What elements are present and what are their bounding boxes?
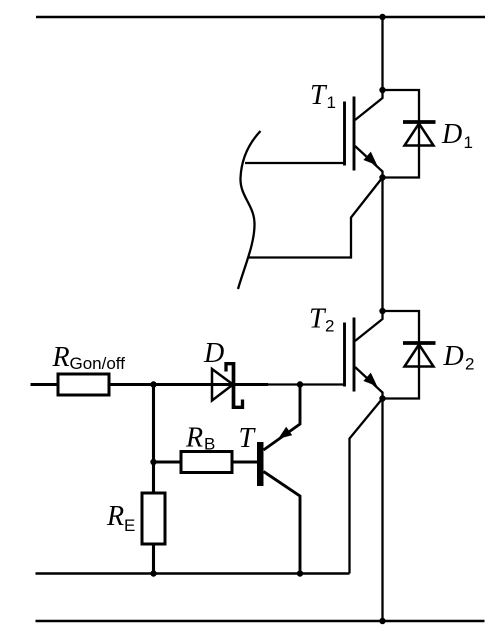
svg-text:2: 2 xyxy=(325,317,334,336)
node: T collector to rail xyxy=(297,570,303,576)
diode D2 cathode bar xyxy=(403,341,436,345)
diode D cathode bar xyxy=(232,362,236,409)
node: top rail junction xyxy=(379,14,385,20)
wire: R_Gon/off to node xyxy=(109,383,234,386)
svg-text:Gon/off: Gon/off xyxy=(70,354,126,373)
transistor T2 body bar xyxy=(353,318,356,392)
svg-text:D: D xyxy=(203,338,224,369)
transistor T1 (IGBT) gate bar xyxy=(343,102,346,166)
svg-text:D: D xyxy=(441,119,462,150)
wire: to R_B xyxy=(154,461,182,464)
wire: R_B to T base xyxy=(232,461,257,464)
node: transistor T emitter junction xyxy=(297,381,303,387)
svg-text:R: R xyxy=(185,422,203,453)
wire: T1 collector lead xyxy=(355,90,383,120)
node: T1 collector xyxy=(379,87,385,93)
diode D (Schottky) triangle xyxy=(212,369,233,401)
svg-text:B: B xyxy=(204,435,215,454)
diode D1 cathode bar xyxy=(403,120,436,124)
node: R_E to rail xyxy=(150,570,156,576)
node: T2 emitter xyxy=(379,395,385,401)
wire: diode D to T2 gate xyxy=(234,383,269,386)
bottom DC bus rail xyxy=(36,620,485,623)
wire: phase bus T1 emitter to T2 collector xyxy=(381,178,383,312)
diode D schottky top hook xyxy=(226,364,234,372)
diode D2 branch top wire xyxy=(383,311,420,343)
svg-text:1: 1 xyxy=(327,93,336,112)
wire: T2 emitter lead xyxy=(355,367,383,399)
node: gate drive junction xyxy=(150,381,156,387)
wire: T1 emitter lead xyxy=(355,146,383,178)
diode D1 triangle xyxy=(405,124,434,146)
arrowhead T1 emitter xyxy=(363,152,377,166)
gate drive input wire xyxy=(31,383,59,386)
svg-text:T: T xyxy=(310,80,328,111)
arrowhead T emitter xyxy=(278,427,292,439)
wire: bus T2 emitter down to bottom rail xyxy=(381,399,383,622)
wire: top bus vertical to T1 collector xyxy=(381,17,383,90)
diode D2 triangle xyxy=(405,345,434,367)
break squiggle (gate drive of T1 not shown) xyxy=(238,131,261,289)
wire: T1 auxiliary emitter xyxy=(249,178,383,258)
svg-text:E: E xyxy=(124,516,135,535)
transistor T2 (IGBT) gate bar xyxy=(343,323,346,387)
node: T1 emitter xyxy=(379,174,385,180)
wire: T emitter lead xyxy=(264,385,301,451)
resistor R_B xyxy=(181,452,232,473)
node: bottom rail junction xyxy=(379,618,385,624)
emitter rail (kelvin) xyxy=(36,572,350,574)
wire: R_E to bottom rail xyxy=(152,544,155,574)
node: R_B branch junction xyxy=(150,459,156,465)
wire: T2 collector lead xyxy=(355,311,383,341)
diode D1 branch bottom wire xyxy=(383,122,420,178)
transistor T (pnp) body bar xyxy=(257,442,264,486)
svg-text:R: R xyxy=(106,501,124,532)
resistor R_E xyxy=(142,493,165,544)
diode D1 branch top wire xyxy=(383,90,420,122)
diode D2 branch bottom wire xyxy=(383,343,420,399)
wire: T2 auxiliary emitter to lower rail xyxy=(350,399,383,574)
svg-text:1: 1 xyxy=(464,133,473,152)
wire: T1 gate lead xyxy=(245,162,345,164)
svg-text:2: 2 xyxy=(465,355,474,374)
arrowhead T2 emitter xyxy=(363,373,377,387)
transistor T1 body bar xyxy=(353,97,356,171)
wire: T collector lead xyxy=(264,472,301,574)
svg-text:R: R xyxy=(52,342,70,373)
wire: junction down to R_B / R_E xyxy=(152,385,155,494)
node: T2 collector xyxy=(379,308,385,314)
diode D schottky bottom hook xyxy=(234,400,243,408)
svg-text:D: D xyxy=(443,341,464,372)
svg-text:T: T xyxy=(239,423,257,454)
top DC bus rail xyxy=(36,16,485,19)
resistor R_Gon/off xyxy=(58,374,109,395)
wire: junction to T2 gate xyxy=(268,383,345,385)
